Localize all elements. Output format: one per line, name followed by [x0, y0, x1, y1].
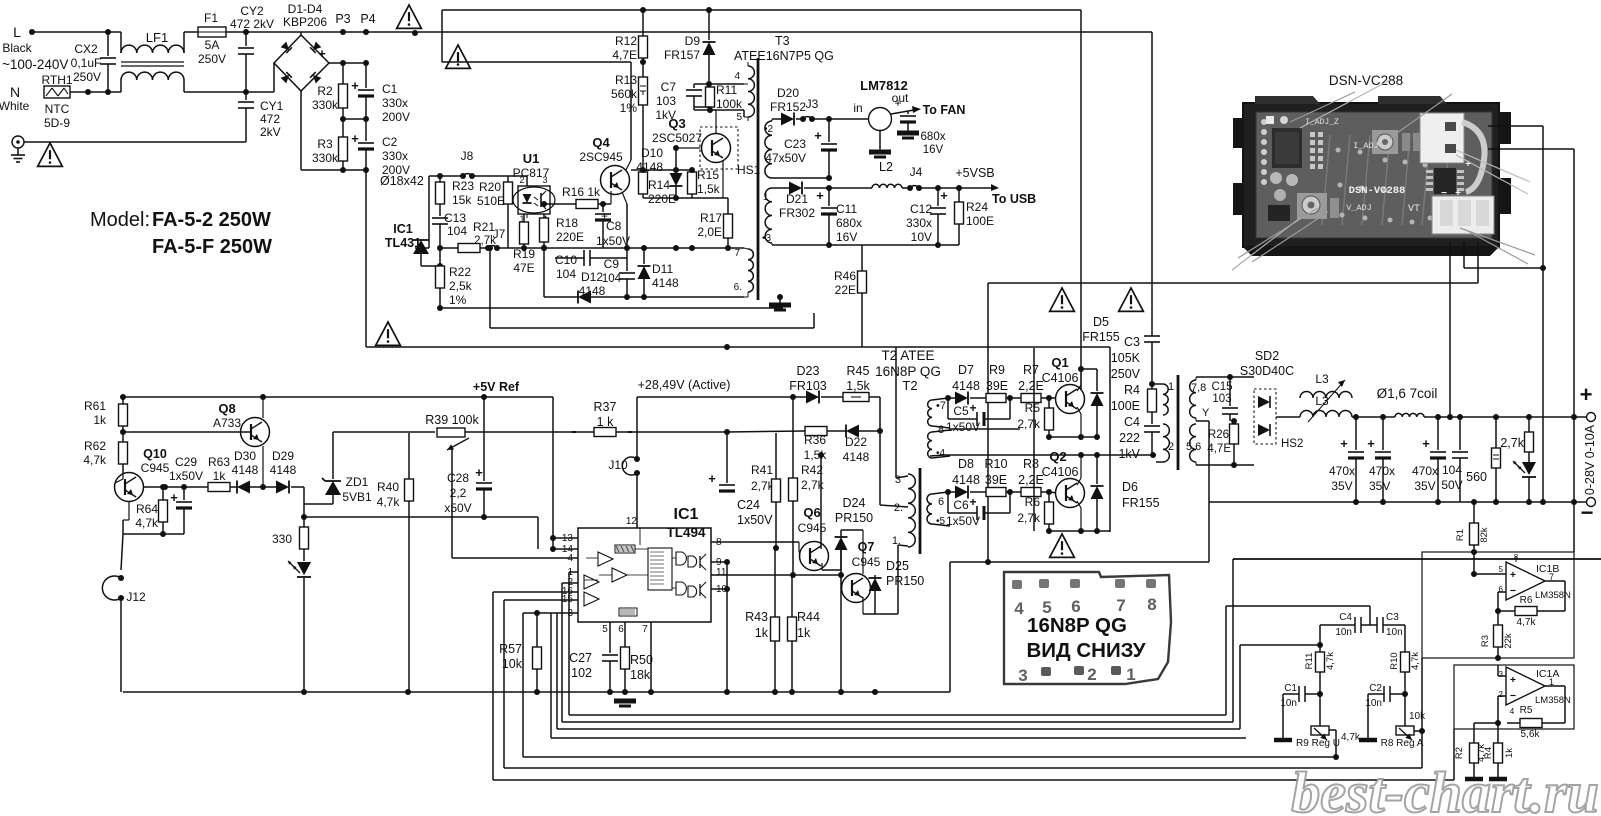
wire Q7 emitter to T2 pin1 [875, 613, 898, 615]
svg-text:C945: C945 [852, 555, 881, 569]
svg-text:R16 1k: R16 1k [562, 185, 601, 199]
svg-text:J4: J4 [910, 165, 923, 179]
wire R3 to IC1A plus [1497, 658, 1499, 676]
svg-text:To FAN: To FAN [923, 103, 966, 117]
svg-text:100E: 100E [1111, 399, 1140, 413]
wire L line [32, 31, 121, 33]
svg-text:330k: 330k [312, 151, 339, 165]
svg-text:N: N [10, 84, 20, 100]
wire L3 to coil [1352, 416, 1395, 418]
wire pin9 [711, 561, 727, 563]
svg-text:4,7E: 4,7E [612, 48, 637, 62]
wire feedback row 328 [489, 248, 491, 328]
svg-text:4148: 4148 [652, 276, 679, 290]
wire module power pin1 [1449, 242, 1451, 417]
svg-text:470x: 470x [1412, 464, 1438, 478]
svg-text:PR150: PR150 [835, 511, 873, 525]
svg-text:D22: D22 [845, 435, 867, 449]
svg-text:+: + [1510, 569, 1516, 581]
svg-text:6.: 6. [734, 282, 742, 293]
wire module power pin2 [1463, 242, 1465, 268]
svg-text:CY1: CY1 [260, 99, 284, 113]
svg-text:2: 2 [1087, 665, 1096, 684]
svg-text:R22: R22 [449, 265, 471, 279]
wire rail y62 [442, 61, 631, 63]
wire Q7 base [840, 575, 842, 583]
svg-text:+: + [318, 46, 326, 61]
svg-text:39E: 39E [986, 379, 1008, 393]
svg-text:22k: 22k [1503, 633, 1514, 649]
svg-text:+5VSB: +5VSB [955, 166, 994, 180]
svg-text:Q7: Q7 [858, 540, 875, 554]
svg-text:C5: C5 [953, 404, 969, 418]
svg-text:2,2: 2,2 [450, 486, 467, 500]
svg-text:13: 13 [562, 533, 574, 544]
svg-text:4,7E: 4,7E [1207, 443, 1231, 455]
svg-text:T2: T2 [902, 378, 917, 393]
wire R2 top [1473, 574, 1475, 602]
svg-text:Ø1,6 7coil: Ø1,6 7coil [1377, 386, 1438, 401]
svg-text:R37: R37 [594, 400, 617, 414]
svg-text:CY2: CY2 [240, 4, 264, 18]
svg-text:R13: R13 [615, 73, 637, 87]
wire module sense wire 1 [1463, 126, 1543, 128]
svg-text:35V: 35V [1414, 479, 1435, 493]
output minus terminal [1587, 498, 1596, 507]
svg-text:ВИД СНИЗУ: ВИД СНИЗУ [1027, 639, 1146, 662]
transformer T2 left winding [908, 474, 915, 547]
wire HV right column [1080, 10, 1082, 391]
svg-text:+28,49V (Active): +28,49V (Active) [638, 378, 731, 392]
wire top rail y10 [442, 9, 1081, 11]
svg-text:NTC: NTC [45, 102, 70, 116]
svg-text:100E: 100E [966, 214, 994, 228]
warning triangle T2 right [1119, 288, 1144, 311]
svg-text:18k: 18k [630, 668, 651, 682]
svg-text:5A: 5A [205, 38, 220, 52]
wire Q10 bottom row [122, 520, 124, 534]
svg-text:D9: D9 [685, 34, 701, 48]
svg-text:FA-5-F 250W: FA-5-F 250W [152, 236, 272, 258]
svg-text:R43: R43 [745, 610, 768, 624]
svg-text:R50: R50 [630, 653, 653, 667]
svg-text:220E: 220E [556, 230, 584, 244]
wire Q3 emitter [722, 161, 724, 198]
svg-text:FR103: FR103 [789, 379, 827, 393]
svg-text:D7: D7 [958, 363, 974, 377]
svg-text:R6: R6 [1520, 595, 1533, 606]
svg-text:472: 472 [260, 112, 280, 126]
svg-text:2,2E: 2,2E [1018, 473, 1044, 487]
svg-text:R3: R3 [1480, 635, 1491, 647]
wire module sense junctions [1540, 499, 1546, 505]
ground LM7812 [879, 130, 881, 150]
svg-text:C1: C1 [382, 82, 398, 96]
svg-text:1x50V: 1x50V [946, 420, 980, 434]
svg-text:222: 222 [1119, 431, 1140, 445]
svg-text:10V: 10V [911, 230, 932, 244]
svg-text:IC1A: IC1A [1536, 668, 1559, 680]
warning triangle P4 [397, 5, 422, 28]
svg-text:0-28V 0-10A: 0-28V 0-10A [1583, 424, 1597, 495]
svg-text:5: 5 [602, 624, 608, 635]
wire bundle line6 pin15 [504, 767, 1422, 769]
wire pin1 [569, 571, 578, 573]
svg-text:R7: R7 [1023, 363, 1039, 377]
wire R1 to plus input [1473, 552, 1475, 574]
chip pin pads top [1012, 580, 1022, 589]
wire T2 pin2 [880, 505, 908, 508]
LED indicator [297, 562, 311, 575]
wire HV bus to C3 [1151, 32, 1153, 336]
wire module sense wire 2 [1488, 148, 1574, 150]
svg-text:2: 2 [1499, 690, 1504, 699]
wire Q7 column grounds [862, 613, 864, 615]
svg-text:T2 ATEE: T2 ATEE [881, 348, 934, 363]
wire T2 pin5 stub [949, 526, 951, 531]
svg-text:330x: 330x [906, 216, 932, 230]
svg-text:5,6k: 5,6k [1521, 729, 1541, 740]
svg-text:1: 1 [1168, 381, 1174, 393]
svg-text:4: 4 [1014, 599, 1024, 618]
svg-text:1x50V: 1x50V [169, 469, 203, 483]
photo DSN-VC288 module [1243, 103, 1499, 247]
svg-text:4148: 4148 [952, 473, 980, 487]
svg-text:4148: 4148 [232, 463, 259, 477]
svg-text:1%: 1% [449, 293, 467, 307]
wire C4 C3 mid node feed [1226, 605, 1370, 607]
svg-text:P4: P4 [360, 12, 375, 26]
svg-text:L2: L2 [879, 160, 893, 174]
svg-text:R40: R40 [377, 480, 399, 494]
svg-text:4: 4 [734, 71, 740, 82]
svg-text:1,5k: 1,5k [697, 182, 721, 196]
warning triangle mid [446, 45, 471, 68]
svg-text:R10: R10 [1389, 652, 1400, 669]
svg-text:2kV: 2kV [260, 125, 281, 139]
svg-text:D29: D29 [272, 449, 294, 463]
svg-text:5: 5 [736, 112, 742, 123]
svg-text:•3: •3 [762, 233, 772, 244]
svg-text:2,0E: 2,0E [697, 225, 722, 239]
wire pin6 down [747, 292, 749, 297]
node N terminal [85, 89, 91, 95]
svg-text:C11: C11 [836, 202, 857, 216]
wire sense row 559 [1233, 558, 1601, 560]
svg-text:FR157: FR157 [664, 48, 700, 62]
svg-text:PR150: PR150 [886, 574, 924, 588]
wire pin16 [493, 591, 578, 593]
svg-text:1: 1 [1126, 665, 1135, 684]
svg-text:5: 5 [1499, 565, 1504, 574]
svg-text:+: + [969, 401, 976, 415]
svg-text:Q3: Q3 [668, 116, 685, 131]
svg-text:LF1: LF1 [146, 30, 168, 45]
svg-text:FA-5-2 250W: FA-5-2 250W [152, 209, 271, 231]
svg-text:C29: C29 [175, 455, 197, 469]
svg-text:103: 103 [1212, 393, 1231, 405]
svg-text:R20: R20 [479, 180, 501, 194]
wire box2 [1454, 665, 1574, 729]
svg-text:IC1B: IC1B [1536, 563, 1559, 575]
svg-text:+: + [940, 188, 948, 203]
transformer T3 core [757, 58, 760, 300]
wire mid rail R2 C1 [343, 118, 366, 120]
transformer T3 primary top winding [748, 66, 754, 117]
resistor R64 body [162, 487, 164, 500]
ground T3 area [779, 297, 781, 303]
wire LM out [891, 110, 914, 114]
wire Q3 base [676, 147, 700, 149]
svg-text:R64: R64 [136, 502, 158, 516]
transformer T2 right lower winding [927, 494, 932, 524]
svg-text:104: 104 [447, 224, 467, 238]
ground C2 [1367, 694, 1369, 738]
wire Q4 collector row [631, 169, 692, 171]
svg-text:1,5k: 1,5k [846, 379, 870, 393]
svg-text:R15: R15 [697, 168, 719, 182]
wire IC1B output [1545, 580, 1565, 582]
transformer T3 secondary winding lower [765, 188, 772, 243]
svg-text:4148: 4148 [952, 379, 980, 393]
svg-text:7: 7 [734, 248, 740, 259]
wire bridge DC out [329, 62, 366, 64]
wire Q6 collector [821, 455, 823, 548]
svg-text:R11: R11 [716, 83, 737, 97]
svg-text:R3: R3 [317, 137, 333, 151]
svg-text:2SC5027: 2SC5027 [652, 131, 702, 145]
svg-text:15k: 15k [452, 193, 472, 207]
svg-text:4,7k: 4,7k [1341, 732, 1361, 743]
svg-text:C3: C3 [1124, 335, 1140, 349]
warning triangle T2 left [1050, 288, 1075, 311]
svg-text:C4106: C4106 [1042, 465, 1079, 479]
svg-text:T3: T3 [775, 34, 790, 48]
svg-text:16N8P QG: 16N8P QG [875, 364, 941, 379]
svg-text:C4: C4 [1339, 612, 1352, 623]
wire bottom rail to R1 [1471, 499, 1477, 505]
wire J8 left corner [429, 175, 440, 177]
svg-text:Q1: Q1 [1051, 355, 1068, 370]
svg-text:Q4: Q4 [592, 135, 610, 150]
wire opamp box1 [1422, 552, 1574, 658]
svg-text:D23: D23 [797, 364, 820, 378]
svg-text:R9: R9 [989, 363, 1005, 377]
wire bridge AC top [300, 32, 302, 35]
transformer T2 right upper winding [928, 400, 932, 426]
wire Q8 emitter [262, 446, 264, 487]
svg-text:472 2kV: 472 2kV [230, 17, 274, 31]
svg-text:R12: R12 [615, 34, 637, 48]
svg-text:47E: 47E [513, 261, 534, 275]
wire D12 row right [627, 296, 744, 298]
wire top jog [441, 10, 443, 62]
svg-text:−: − [1441, 188, 1447, 199]
svg-text:250V: 250V [73, 70, 101, 84]
svg-text:39E: 39E [985, 473, 1007, 487]
svg-text:FR155: FR155 [1122, 496, 1160, 510]
svg-text:1k: 1k [755, 626, 769, 640]
svg-text:1%: 1% [620, 101, 638, 115]
wire output winding top [1195, 377, 1197, 380]
svg-text:1k: 1k [213, 469, 227, 483]
wire module feedback column [987, 283, 989, 562]
svg-text:6: 6 [618, 624, 624, 635]
wire bundle line4 [550, 613, 552, 738]
svg-text:R14: R14 [648, 178, 670, 192]
svg-text:−: − [1510, 585, 1516, 597]
svg-text:HS2: HS2 [1281, 438, 1303, 450]
svg-text:4,7k: 4,7k [1517, 617, 1537, 628]
svg-text:560k: 560k [611, 87, 638, 101]
svg-text:C23: C23 [784, 137, 806, 151]
svg-text:4148: 4148 [270, 463, 297, 477]
svg-text:D12: D12 [581, 270, 603, 284]
wire R39 wiper to pin4 [451, 449, 453, 558]
IC1 internal amplifiers [598, 552, 613, 566]
svg-text:R8 Reg A: R8 Reg A [1381, 738, 1424, 749]
svg-text:4148: 4148 [843, 450, 870, 464]
svg-text:8: 8 [1147, 595, 1156, 614]
wire L bus P3 P4 [301, 31, 1152, 33]
svg-text:2,7k: 2,7k [1017, 417, 1041, 431]
svg-text:−: − [1581, 500, 1594, 525]
wire winding upper bottom [772, 177, 829, 179]
svg-text:1k: 1k [797, 626, 811, 640]
wire T2 tap8 row [950, 428, 1020, 430]
svg-text:330x: 330x [382, 96, 408, 110]
arrow To USB [935, 185, 941, 191]
svg-text:L3: L3 [1315, 372, 1329, 386]
svg-text:C4: C4 [1124, 415, 1140, 429]
svg-text:102: 102 [571, 666, 592, 680]
svg-text:DSN-VC288: DSN-VC288 [1349, 185, 1406, 197]
wire IC1A minus [1498, 695, 1506, 697]
svg-text:FR155: FR155 [1082, 330, 1120, 344]
wire bridge AC left [273, 63, 275, 92]
svg-text:L: L [13, 24, 21, 40]
svg-text:200V: 200V [382, 110, 410, 124]
wire R37 row [578, 431, 594, 433]
svg-text:J3: J3 [806, 97, 819, 111]
svg-text:D6: D6 [1122, 480, 1138, 494]
node L terminal [29, 29, 35, 35]
wire Q7 emitter [862, 597, 864, 614]
svg-text:R23: R23 [452, 179, 474, 193]
svg-text:220E: 220E [648, 192, 676, 206]
svg-text:35V: 35V [1331, 479, 1352, 493]
ground C1 [1282, 694, 1284, 738]
svg-text:250V: 250V [198, 52, 226, 66]
svg-text:To USB: To USB [992, 192, 1036, 206]
wire +28V column J10 [636, 397, 638, 459]
wire T3 sec return [764, 244, 766, 246]
svg-text:2.: 2. [894, 502, 903, 514]
svg-text:C10: C10 [555, 253, 577, 267]
wire pin5 to R11 [744, 116, 748, 118]
svg-text:+: + [475, 465, 483, 480]
svg-text:C28: C28 [447, 471, 469, 485]
svg-text:RTH1: RTH1 [41, 73, 72, 87]
svg-text:250V: 250V [1111, 367, 1141, 381]
svg-text:Q10: Q10 [143, 447, 167, 461]
wire 28V to D23 [637, 396, 793, 398]
svg-text:2,5k: 2,5k [449, 279, 473, 293]
svg-text:•7: •7 [936, 400, 946, 412]
svg-text:1x50V: 1x50V [596, 234, 630, 248]
wire D24 top to Q7 collector [841, 529, 863, 531]
wire output winding bottom [1195, 462, 1197, 465]
wire D8 row [945, 489, 951, 495]
svg-text:D11: D11 [652, 262, 673, 276]
wire module power pin3 [1477, 242, 1479, 283]
wire T2 pin1 [898, 545, 908, 546]
svg-text:1x50V: 1x50V [946, 514, 980, 528]
svg-text:16V: 16V [923, 144, 944, 156]
svg-text:V_ADJ: V_ADJ [1346, 203, 1372, 213]
wire rail down right [1109, 347, 1111, 532]
wire pin6 column [621, 622, 625, 645]
svg-text:D8: D8 [958, 457, 974, 471]
wire base row 248 right [524, 247, 744, 249]
svg-text:HS1: HS1 [737, 163, 761, 177]
svg-text:R1: R1 [1455, 529, 1466, 541]
svg-text:10n: 10n [1335, 627, 1352, 638]
warning triangle under Q2 [1050, 534, 1075, 557]
svg-text:+: + [969, 495, 976, 509]
svg-text:2SC945: 2SC945 [579, 150, 623, 164]
svg-text:+: + [1367, 436, 1375, 451]
svg-text:in: in [853, 101, 862, 115]
transformer T3 bottom winding [748, 249, 753, 292]
transformer T2 output winding upper [1190, 380, 1196, 418]
wire output bottom rail [1209, 501, 1586, 503]
wire R45 to T2 column [879, 397, 881, 505]
svg-text:DSN-VC288: DSN-VC288 [1329, 73, 1403, 88]
wire T2 pin4 long row [930, 455, 944, 457]
svg-text:100k: 100k [716, 97, 743, 111]
svg-text:35V: 35V [1369, 479, 1390, 493]
svg-text:2,2E: 2,2E [1018, 379, 1044, 393]
resistor R2 4,7k [1474, 722, 1498, 724]
svg-text:10k: 10k [502, 657, 523, 671]
svg-text:J7: J7 [493, 227, 506, 241]
svg-text:22E: 22E [835, 283, 856, 297]
svg-text:4,7k: 4,7k [83, 453, 107, 467]
svg-text:C945: C945 [798, 521, 827, 535]
wire R36 D22 row [727, 431, 805, 432]
svg-text:+: + [708, 471, 716, 486]
wire Q1 emitter [1077, 407, 1081, 414]
svg-text:5D-9: 5D-9 [44, 116, 70, 130]
svg-text:R2: R2 [1454, 747, 1465, 759]
wire Q2 base [1049, 492, 1058, 493]
wire Q1 base [1049, 397, 1058, 399]
wire earth line [24, 141, 246, 143]
svg-text:8: 8 [938, 424, 944, 436]
wire bundle line2 pin2 [562, 721, 1233, 723]
svg-text:16N8P QG: 16N8P QG [1027, 614, 1127, 637]
wire pin3 [537, 612, 578, 614]
svg-text:12: 12 [626, 516, 638, 527]
wire feedback row 308 [440, 307, 780, 309]
svg-text:~100-240V: ~100-240V [2, 57, 68, 72]
wire emitter row y198 [643, 197, 692, 199]
svg-text:510E: 510E [477, 194, 505, 208]
svg-text:−: − [1510, 690, 1516, 702]
svg-text:4: 4 [1510, 707, 1515, 716]
svg-text:7: 7 [642, 624, 648, 635]
